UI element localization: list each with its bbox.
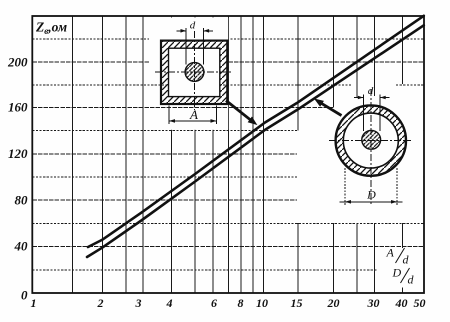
svg-text:80: 80 bbox=[15, 192, 29, 207]
svg-text:0: 0 bbox=[21, 288, 28, 303]
svg-text:A: A bbox=[189, 107, 198, 122]
svg-text:d: d bbox=[190, 19, 196, 31]
svg-text:1: 1 bbox=[31, 296, 37, 310]
svg-text:40: 40 bbox=[14, 239, 29, 254]
svg-text:200: 200 bbox=[7, 54, 28, 69]
svg-text:D: D bbox=[392, 266, 402, 280]
svg-text:A: A bbox=[386, 246, 395, 260]
svg-text:3: 3 bbox=[135, 296, 142, 310]
svg-text:30: 30 bbox=[367, 296, 380, 310]
svg-text:Zв,ом: Zв,ом bbox=[35, 20, 67, 37]
svg-text:50: 50 bbox=[414, 296, 426, 310]
svg-text:10: 10 bbox=[256, 296, 268, 310]
svg-text:d: d bbox=[403, 253, 410, 267]
svg-text:20: 20 bbox=[327, 296, 340, 310]
svg-text:15: 15 bbox=[291, 296, 303, 310]
svg-text:8: 8 bbox=[238, 296, 244, 310]
svg-text:D: D bbox=[366, 187, 376, 201]
svg-text:d: d bbox=[408, 273, 415, 287]
svg-text:d: d bbox=[368, 85, 374, 97]
svg-text:160: 160 bbox=[8, 100, 28, 115]
svg-text:40: 40 bbox=[395, 296, 408, 310]
svg-text:6: 6 bbox=[211, 296, 217, 310]
svg-text:4: 4 bbox=[166, 296, 173, 310]
svg-text:120: 120 bbox=[8, 146, 28, 161]
svg-text:2: 2 bbox=[97, 296, 104, 310]
